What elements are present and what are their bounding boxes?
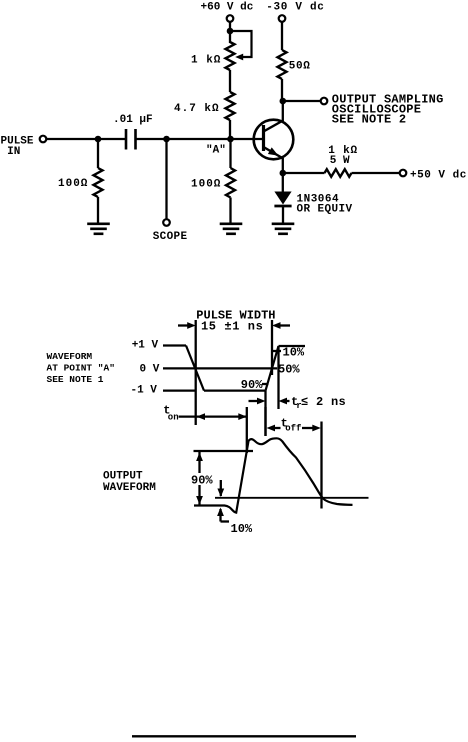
svg-text:0 V: 0 V xyxy=(140,363,160,375)
svg-text:5 W: 5 W xyxy=(330,155,350,167)
pulse width right arrow xyxy=(272,322,281,329)
wire R5 to collector xyxy=(281,79,283,101)
output 90% measure upper xyxy=(198,451,200,473)
svg-text:50Ω: 50Ω xyxy=(289,60,311,72)
transistor Q1 collector lead xyxy=(264,121,284,132)
svg-text:IN: IN xyxy=(7,146,20,158)
diode CR1 1N3064 xyxy=(274,192,291,205)
svg-text:10%: 10% xyxy=(231,522,253,536)
ground diode xyxy=(272,223,295,226)
junction scope tap xyxy=(163,136,170,143)
wire diode to ground xyxy=(282,207,284,224)
wire input to cap xyxy=(46,138,126,140)
svg-text:15 ±1 ns: 15 ±1 ns xyxy=(201,320,263,334)
svg-text:90%: 90% xyxy=(241,378,263,392)
ground base resistor xyxy=(220,223,243,226)
ton right arrowhead xyxy=(238,413,247,420)
transistor Q1 emitter arrow xyxy=(268,147,279,155)
svg-text:50%: 50% xyxy=(278,362,300,376)
wire R6 to +50 terminal xyxy=(352,172,400,174)
wire R1 to R2 xyxy=(229,70,231,92)
svg-text:off: off xyxy=(285,424,301,434)
wire pot wiper loop xyxy=(230,31,252,57)
input falling ramp xyxy=(186,346,204,391)
toff arrow left xyxy=(267,425,276,432)
svg-text:100Ω: 100Ω xyxy=(58,178,88,190)
toff left extension xyxy=(264,407,266,436)
svg-text:+50 V dc: +50 V dc xyxy=(410,170,467,182)
output waveform trace xyxy=(194,438,353,512)
resistor R3 100 ohm xyxy=(94,168,103,197)
resistor R6 1 kohm 5 W xyxy=(325,169,352,177)
transistor Q1 body xyxy=(254,120,294,160)
output reference line xyxy=(215,497,369,499)
pulse width right extension line xyxy=(271,320,273,375)
resistor R5 50 ohm xyxy=(278,50,287,79)
terminal +60 V dc xyxy=(227,15,234,22)
wire R3 to ground xyxy=(97,197,99,224)
tr right arrow xyxy=(279,398,288,405)
resistor R1 1 kohm pot xyxy=(226,42,235,70)
terminal -30 V dc xyxy=(279,15,286,22)
toff right extension line xyxy=(320,422,322,509)
svg-text:90%: 90% xyxy=(191,473,213,487)
input 0V axis line xyxy=(163,367,277,369)
bottom horizontal rule xyxy=(132,735,356,737)
wire scope tap xyxy=(165,139,167,219)
ton right extension line xyxy=(246,407,248,453)
svg-text:on: on xyxy=(168,413,179,423)
terminal PULSE IN xyxy=(40,136,47,143)
svg-text:-1 V: -1 V xyxy=(131,385,158,397)
wire emitter to R6 xyxy=(283,172,325,174)
tr right line xyxy=(277,346,279,409)
svg-text:≤ 2 ns: ≤ 2 ns xyxy=(301,395,346,409)
input +1V leader/flat xyxy=(163,344,186,346)
svg-text:AT POINT "A": AT POINT "A" xyxy=(47,363,115,374)
output 90% tick xyxy=(194,450,254,452)
output 10% lower arrow xyxy=(217,508,224,517)
output 10% upper arrow xyxy=(220,480,222,496)
svg-text:100Ω: 100Ω xyxy=(191,178,221,190)
svg-text:"A": "A" xyxy=(206,144,226,156)
svg-text:WAVEFORM: WAVEFORM xyxy=(103,482,156,494)
svg-text:+60 V dc: +60 V dc xyxy=(201,2,254,14)
tr left arrow xyxy=(249,400,260,402)
capacitor C1 .01 uF xyxy=(125,129,128,150)
wire node A to R4 xyxy=(229,139,231,168)
input 90% tick xyxy=(262,383,269,385)
svg-text:SCOPE: SCOPE xyxy=(153,231,188,243)
resistor R2 4.7 kohm xyxy=(226,92,235,120)
input rising ramp xyxy=(266,346,279,391)
junction emitter xyxy=(280,170,287,177)
junction input xyxy=(95,136,102,143)
pulse width left arrow xyxy=(178,324,190,326)
terminal SCOPE xyxy=(163,219,170,226)
junction node A xyxy=(227,136,234,143)
wire R4 to ground xyxy=(229,198,231,225)
wire junction to R3 xyxy=(97,139,99,168)
pot wiper arrow xyxy=(235,54,243,61)
toff arrow right xyxy=(302,427,313,429)
terminal +50 V dc xyxy=(400,170,407,177)
svg-text:10%: 10% xyxy=(283,345,305,359)
input -1V leader xyxy=(163,389,196,391)
output 10% leader xyxy=(221,520,230,522)
svg-text:-30 V dc: -30 V dc xyxy=(266,2,324,14)
ground input xyxy=(87,223,110,226)
transistor Q1 emitter lead xyxy=(264,147,284,159)
transistor Q1 base bar xyxy=(262,125,265,151)
ton arrow line xyxy=(179,415,247,417)
input 10% tick xyxy=(273,350,281,352)
wire emitter junction to diode xyxy=(282,173,284,192)
input +1V right flat xyxy=(279,345,306,347)
terminal OUTPUT SAMPLING xyxy=(321,98,328,105)
svg-text:OUTPUT: OUTPUT xyxy=(103,470,143,482)
svg-text:.01 μF: .01 μF xyxy=(113,114,153,126)
input -1V flat xyxy=(204,389,266,391)
svg-text:SEE NOTE 1: SEE NOTE 1 xyxy=(47,374,104,385)
svg-text:+1 V: +1 V xyxy=(132,339,159,351)
svg-text:1 kΩ: 1 kΩ xyxy=(191,54,221,66)
wire emitter down xyxy=(282,158,284,174)
svg-text:SEE NOTE 2: SEE NOTE 2 xyxy=(332,113,407,127)
svg-text:WAVEFORM: WAVEFORM xyxy=(47,351,93,362)
wire collector to output terminal xyxy=(283,100,321,102)
wire R2 to node A xyxy=(229,120,231,140)
output 90% measure lower xyxy=(198,485,200,505)
junction pot top xyxy=(227,28,234,35)
resistor R4 100 ohm xyxy=(226,168,235,198)
wire -30V to R5 xyxy=(281,22,283,50)
svg-text:OR EQUIV: OR EQUIV xyxy=(297,203,353,215)
ton left arrowhead xyxy=(197,413,206,420)
junction collector xyxy=(280,98,287,105)
wire cap to base xyxy=(136,138,264,140)
pulse width left extension line xyxy=(195,320,197,425)
tr left line xyxy=(264,391,266,436)
wire collector to junction xyxy=(282,101,284,121)
wire +60V to R1 xyxy=(229,22,231,43)
svg-text:4.7 kΩ: 4.7 kΩ xyxy=(174,103,220,115)
